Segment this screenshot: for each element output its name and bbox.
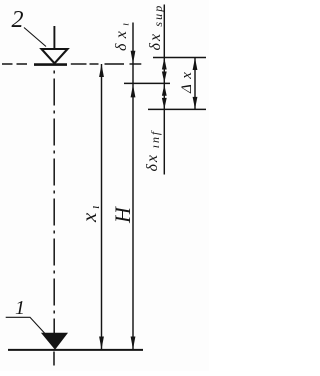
label H (110, 206, 135, 224)
nominal level dashed line (left part) (2, 63, 30, 65)
level symbol 2: open triangle with stem (42, 26, 68, 63)
label 1 (15, 297, 25, 319)
centerline (dash-dot) (53, 71, 55, 334)
actual level line (middle) (124, 82, 170, 84)
dimension line H with outside arrows for δx_L (131, 23, 136, 350)
svg-text:H: H (110, 206, 135, 224)
level symbol 1: filled triangle (42, 333, 67, 349)
sup level line (153, 57, 206, 59)
thick base bar of symbol 2 (34, 63, 67, 66)
svg-text:Δx: Δx (179, 67, 195, 94)
leader line to symbol 1 (6, 317, 50, 339)
centerline tail below baseline (53, 352, 55, 366)
label 2 (12, 7, 24, 33)
nominal level dashed line (right part) (71, 63, 142, 65)
dimension line δx_sup / δx_inf (162, 5, 167, 175)
svg-text:2: 2 (12, 7, 24, 33)
label δx_inf (144, 130, 162, 172)
inf level line (148, 108, 206, 110)
dimension line x_L (99, 64, 104, 350)
svg-text:1: 1 (15, 297, 25, 319)
label δx_sup (147, 4, 165, 51)
label δx_L (113, 18, 132, 52)
label Δx (179, 67, 195, 94)
baseline (8, 349, 143, 351)
leader line to symbol 2 (24, 28, 46, 47)
dimension line Δx (193, 58, 198, 110)
label x_L (77, 202, 102, 223)
